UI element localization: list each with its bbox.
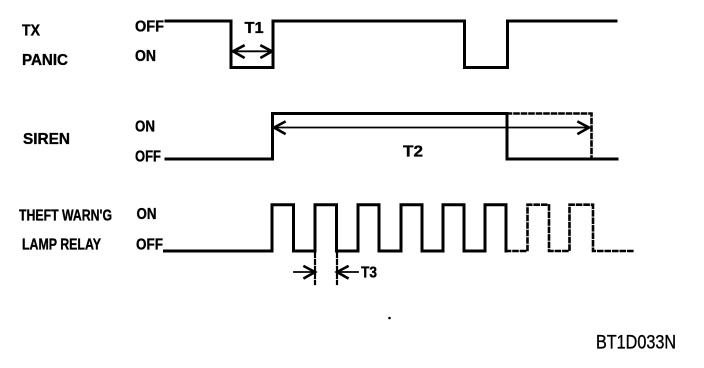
svg-text:T1: T1 [245,20,264,37]
svg-text:ON: ON [137,206,157,223]
speck dot [388,317,391,320]
svg-text:ON: ON [135,119,155,136]
svg-text:ON: ON [135,48,156,65]
svg-text:TX: TX [22,23,40,40]
svg-text:T2: T2 [403,144,423,161]
wire SIREN waveform solid [166,114,617,160]
svg-text:OFF: OFF [135,149,161,166]
svg-text:T3: T3 [361,265,377,282]
svg-text:OFF: OFF [136,237,163,254]
wire TX PANIC waveform [166,21,616,68]
arrow T1 double-headed [233,46,272,58]
svg-text:PANIC: PANIC [22,52,68,69]
svg-text:SIREN: SIREN [23,131,70,148]
arrow T3 left [294,267,315,279]
svg-text:OFF: OFF [135,19,164,36]
wire LAMP RELAY pulse train dashed [506,205,633,251]
wire LAMP RELAY pulse train solid [165,205,507,251]
extension line right (dashed, T3) [336,253,338,284]
svg-text:THEFT WARN'G: THEFT WARN'G [19,208,112,225]
svg-text:LAMP RELAY: LAMP RELAY [22,237,101,254]
extension line left (dashed, T3) [314,253,316,284]
wire SIREN waveform dashed extension [507,114,592,160]
arrow T2 double-headed [274,122,589,134]
svg-text:BT1D033N: BT1D033N [596,333,676,354]
arrow T3 right [337,267,358,279]
